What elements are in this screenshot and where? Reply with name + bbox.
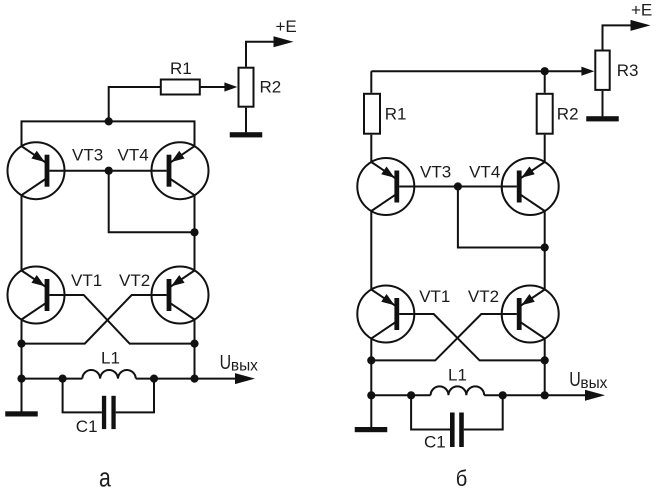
svg-text:вых: вых	[231, 357, 258, 374]
svg-text:L1: L1	[101, 349, 120, 368]
svg-text:+E: +E	[631, 1, 652, 20]
svg-text:R2: R2	[260, 78, 282, 97]
svg-text:U: U	[569, 369, 581, 391]
svg-text:L1: L1	[448, 366, 467, 385]
svg-text:R2: R2	[557, 104, 579, 123]
svg-text:вых: вых	[580, 375, 607, 392]
svg-text:VT1: VT1	[419, 287, 450, 306]
svg-text:VT3: VT3	[72, 146, 103, 165]
svg-text:VT4: VT4	[469, 163, 500, 182]
svg-text:б: б	[456, 466, 468, 490]
svg-text:U: U	[220, 352, 232, 374]
svg-text:R1: R1	[385, 104, 407, 123]
svg-text:VT4: VT4	[118, 146, 149, 165]
svg-text:R3: R3	[617, 61, 639, 80]
svg-text:VT2: VT2	[468, 287, 499, 306]
svg-text:а: а	[99, 464, 111, 490]
svg-text:C1: C1	[76, 417, 98, 436]
svg-text:+E: +E	[276, 17, 297, 36]
svg-text:C1: C1	[424, 433, 446, 452]
svg-text:VT3: VT3	[420, 163, 451, 182]
svg-text:R1: R1	[170, 59, 192, 78]
svg-text:VT1: VT1	[71, 271, 102, 290]
svg-text:VT2: VT2	[119, 271, 150, 290]
